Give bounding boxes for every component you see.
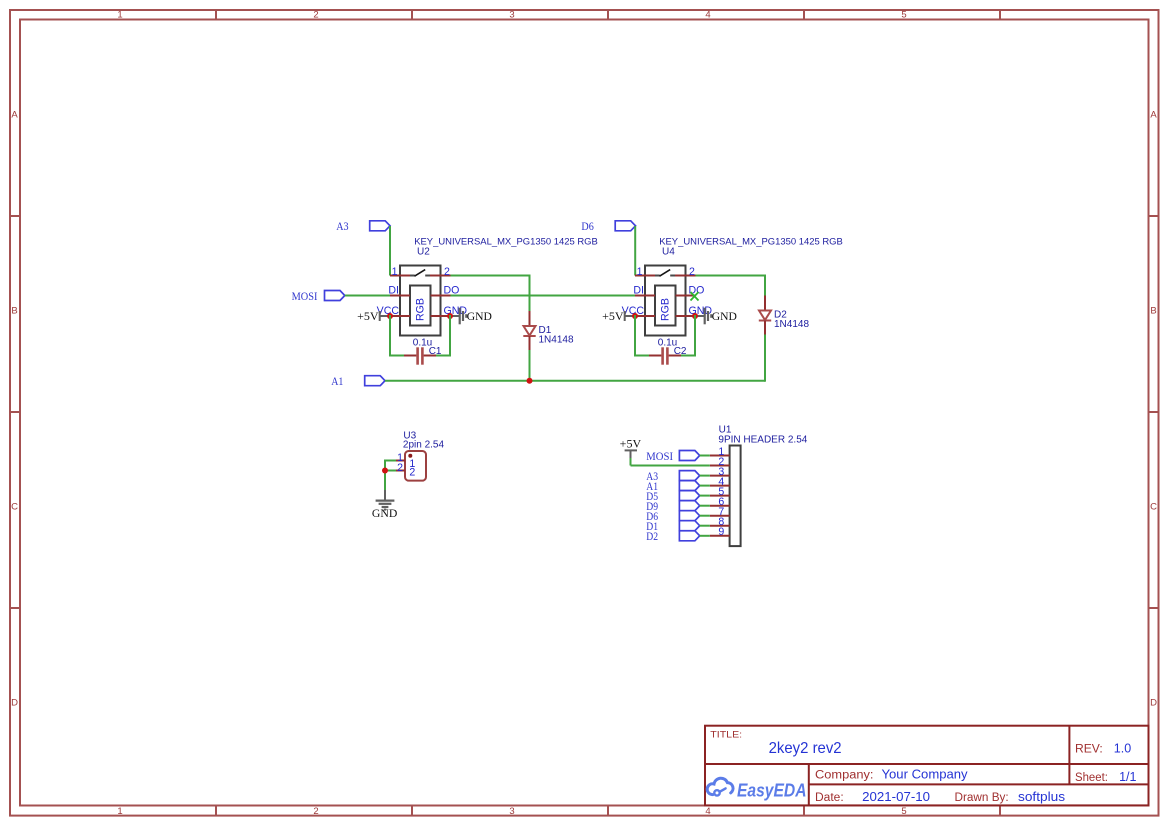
svg-text:A: A [11,110,18,121]
svg-text:2: 2 [409,467,415,479]
svg-text:3: 3 [509,10,514,21]
capacitor C1 0.1u [404,338,442,365]
wire A3 flag to pin [700,475,710,477]
wire A1 flag to pin [700,485,710,487]
connector U3 2pin 2.54 [395,430,444,480]
no-connect flag on U4 DO [691,292,699,301]
svg-text:GND: GND [712,309,738,323]
port flag D6 at U1 [646,509,699,523]
port flag D9 at U1 [646,499,699,513]
svg-text:2: 2 [444,266,450,278]
key switch U2 KEY_UNIVERSAL_MX_PG1350 1425 RGB [377,237,598,336]
key switch U4 KEY_UNIVERSAL_MX_PG1350 1425 RGB [622,237,843,336]
port flag D5 at U1 [646,489,699,503]
wire MOSI to U2 DI [345,295,390,297]
power flag +5V at U2 [357,309,390,323]
power flag GND at U2 [450,308,492,325]
svg-text:2pin 2.54: 2pin 2.54 [403,440,445,451]
svg-text:EasyEDA: EasyEDA [737,780,807,801]
port flag D2 at U1 [646,529,699,543]
diode D1 1N4148 [523,311,574,351]
svg-text:B: B [11,306,17,317]
svg-text:A3: A3 [336,219,348,233]
port flag MOSI at U1 [646,449,699,463]
wire U4 VCC down to C2 [634,315,636,357]
junction U4 GND [692,313,698,319]
svg-text:A1: A1 [331,374,343,388]
wire U2 DO to U4 DI (MOSI) [451,295,636,297]
svg-text:DI: DI [388,285,399,297]
svg-text:D6: D6 [581,219,593,233]
svg-text:TITLE:: TITLE: [710,730,742,741]
svg-text:2: 2 [313,806,318,817]
svg-text:+5V: +5V [357,309,379,323]
wire D2 flag to pin [700,535,710,537]
svg-text:Sheet:: Sheet: [1075,772,1108,784]
junction U2 GND [447,313,453,319]
svg-text:DI: DI [633,285,644,297]
port flag D1 at U1 [646,519,699,533]
wire D1 to A1 net [529,350,531,382]
svg-text:RGB: RGB [660,298,672,321]
wire D2 to A1 net [764,335,766,382]
svg-text:1.0: 1.0 [1114,741,1131,756]
svg-text:RGB: RGB [415,298,427,321]
svg-text:A: A [1150,110,1157,121]
wire U3 pin1 to gnd [385,460,396,462]
svg-text:softplus: softplus [1018,789,1066,804]
junction A1/D1 [527,378,533,384]
svg-text:D2: D2 [646,529,658,543]
svg-text:B: B [1150,306,1156,317]
svg-text:2key2 rev2: 2key2 rev2 [769,740,842,757]
wire U2 pin2 to D1 [451,275,531,277]
svg-text:REV:: REV: [1075,744,1103,756]
wire U4 GND down to C2 [694,315,696,357]
EasyEDA logo [707,778,806,800]
wire D9 flag to pin [700,505,710,507]
wire U4 pin2 to D2 [696,275,767,277]
wire +5V to U1 pin2 [630,458,632,466]
svg-text:2021-07-10: 2021-07-10 [862,789,930,804]
svg-text:2: 2 [313,10,318,21]
svg-text:+5V: +5V [602,309,624,323]
wire D1 flag to pin [700,525,710,527]
svg-text:MOSI: MOSI [292,289,318,303]
wire A3 to U2 pin 1 [389,226,391,276]
capacitor C2 0.1u [649,338,687,365]
svg-text:2: 2 [689,266,695,278]
svg-text:3: 3 [509,806,514,817]
svg-text:C1: C1 [429,346,442,357]
ground symbol GND at U3 [372,490,398,520]
svg-text:4: 4 [705,806,710,817]
diode D2 1N4148 [759,296,810,336]
wire A1 bus [385,380,765,382]
svg-text:Company:: Company: [815,770,874,782]
junction U3 [382,468,388,474]
port flag A3 at U1 [646,469,699,483]
svg-text:1: 1 [117,10,122,21]
svg-text:1: 1 [392,266,398,278]
power flag GND at U4 [695,308,737,325]
power flag +5V at U1 [620,437,642,459]
svg-text:+5V: +5V [620,437,642,451]
svg-text:C2: C2 [674,346,687,357]
svg-text:5: 5 [901,806,906,817]
wire U2 VCC down to C1 [389,315,391,357]
svg-text:C: C [11,502,18,513]
port flag A1 [331,374,385,388]
junction U4 VCC [632,313,638,319]
svg-text:MOSI: MOSI [646,449,673,463]
svg-text:4: 4 [705,10,710,21]
wire D6 flag to pin [700,515,710,517]
port flag A1 at U1 [646,479,699,493]
svg-text:KEY_UNIVERSAL_MX_PG1350 1425 R: KEY_UNIVERSAL_MX_PG1350 1425 RGB [659,237,843,248]
svg-text:1N4148: 1N4148 [774,319,809,330]
svg-text:Your Company: Your Company [882,767,969,782]
svg-text:1/1: 1/1 [1119,769,1136,784]
wire D6 to U4 pin 1 [634,226,636,276]
svg-text:Date:: Date: [815,792,844,804]
wire D5 flag to pin [700,495,710,497]
title block [705,726,1149,806]
svg-text:1: 1 [117,806,122,817]
svg-text:1N4148: 1N4148 [539,335,574,346]
svg-text:U2: U2 [417,247,430,258]
svg-text:GND: GND [467,309,493,323]
port flag A3 [336,219,390,233]
power flag +5V at U4 [602,309,635,323]
svg-text:Drawn By:: Drawn By: [955,792,1009,804]
svg-text:GND: GND [372,506,398,520]
wire U3 pin2 stub [385,470,396,472]
svg-text:2: 2 [397,462,403,474]
svg-text:U4: U4 [662,247,675,258]
port flag D6 [581,219,635,233]
svg-text:1: 1 [637,266,643,278]
svg-text:D: D [11,698,18,709]
svg-text:C: C [1150,502,1157,513]
svg-text:5: 5 [901,10,906,21]
svg-text:D: D [1150,698,1157,709]
junction U2 VCC [387,313,393,319]
wire MOSI flag to pin [700,455,710,457]
svg-text:KEY_UNIVERSAL_MX_PG1350 1425 R: KEY_UNIVERSAL_MX_PG1350 1425 RGB [414,237,598,248]
net flag MOSI [292,289,345,303]
svg-text:9: 9 [718,526,724,538]
svg-text:9PIN HEADER 2.54: 9PIN HEADER 2.54 [718,434,807,445]
connector U1 9PIN HEADER 2.54 [710,425,808,546]
wire U2 GND down to C1 [449,315,451,357]
